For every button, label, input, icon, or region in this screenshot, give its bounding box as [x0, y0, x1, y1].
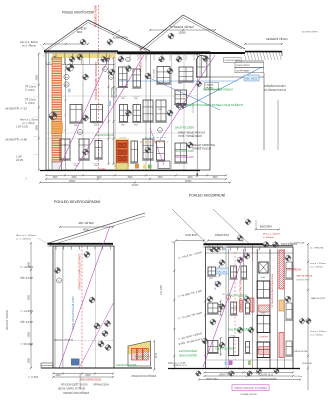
svg-text:KLASIK BLOKY: KLASIK BLOKY: [185, 234, 198, 237]
svg-text:▽ +3,150: ▽ +3,150: [20, 310, 34, 313]
svg-text:900: 900: [134, 125, 138, 127]
svg-text:ÚHELNÍK: ÚHELNÍK: [302, 362, 313, 365]
svg-text:OK +8,5: OK +8,5: [217, 271, 228, 273]
svg-text:▽ ±0,000: ▽ ±0,000: [20, 343, 34, 346]
svg-text:∆42900TŘ +7,23: ∆42900TŘ +7,23: [5, 107, 28, 110]
svg-text:ČSADA: ČSADA: [205, 84, 214, 87]
svg-text:tl. 450mm: tl. 450mm: [263, 236, 274, 239]
svg-text:ÚROVEŇ TERÉNU: ÚROVEŇ TERÉNU: [260, 378, 277, 381]
svg-text:vn. STŘECHA: vn. STŘECHA: [290, 242, 305, 245]
svg-text:3500: 3500: [127, 177, 133, 179]
svg-text:SEVERNÍ VĚTEV: SEVERNÍ VĚTEV: [266, 36, 288, 41]
svg-text:12650: 12650: [185, 180, 192, 183]
svg-text:▽ -0,350: ▽ -0,350: [28, 376, 39, 379]
svg-text:1,NP: 1,NP: [16, 157, 23, 159]
svg-text:SLOVNÍK VĚTEV: SLOVNÍK VĚTEV: [302, 31, 318, 34]
svg-text:ÚPRAV VANGINL SYSTÉMŮ: ÚPRAV VANGINL SYSTÉMŮ: [234, 387, 267, 390]
svg-text:vn 1, 45mm: vn 1, 45mm: [22, 46, 36, 48]
svg-text:POHLED JIHOVÝCHODNÍ: POHLED JIHOVÝCHODNÍ: [62, 11, 94, 15]
svg-text:vn 1. 450mm: vn 1. 450mm: [310, 334, 323, 336]
svg-text:Mezi vz 1. 500mm: Mezi vz 1. 500mm: [16, 235, 36, 237]
svg-text:ODVĚTRÁNÍ 125/110 DN: ODVĚTRÁNÍ 125/110 DN: [95, 134, 114, 137]
svg-text:900: 900: [158, 109, 162, 111]
svg-text:DOPLNIT KRYT: DOPLNIT KRYT: [296, 279, 311, 281]
svg-text:TŘ 2.NP: TŘ 2.NP: [20, 277, 34, 280]
svg-text:1,NP 23,05: 1,NP 23,05: [16, 127, 29, 129]
svg-text:3500: 3500: [212, 177, 218, 179]
svg-text:OPRAVA ZDIVA: OPRAVA ZDIVA: [93, 384, 109, 387]
svg-text:900: 900: [94, 125, 98, 127]
svg-text:STŘEDNÍ VĚTEV: STŘEDNÍ VĚTEV: [170, 24, 194, 29]
svg-text:8600: 8600: [83, 229, 89, 232]
svg-text:Ato vn 1, 50mm: Ato vn 1, 50mm: [20, 41, 38, 44]
svg-text:JZD VĚTEV: JZD VĚTEV: [74, 28, 87, 31]
svg-text:OPRAVA ZDIVA PŘÍZEMÍ: OPRAVA ZDIVA PŘÍZEMÍ: [131, 375, 156, 378]
svg-text:3500: 3500: [52, 177, 58, 179]
svg-text:2850: 2850: [28, 331, 31, 337]
svg-text:ODVĚTRANÉ: ODVĚTRANÉ: [236, 70, 250, 73]
svg-text:PŮVODNÍ DEŠŤ. SVODY: PŮVODNÍ DEŠŤ. SVODY: [61, 384, 88, 387]
svg-text:3500: 3500: [157, 177, 163, 179]
svg-text:2850: 2850: [35, 124, 38, 130]
svg-text:23150: 23150: [132, 184, 139, 187]
svg-text:OK +4,25: OK +4,25: [215, 280, 217, 290]
svg-text:900: 900: [94, 165, 98, 167]
svg-text:1600: 1600: [261, 277, 266, 279]
svg-text:1600: 1600: [261, 312, 266, 314]
svg-text:6000: 6000: [85, 375, 91, 377]
svg-text:4150: 4150: [156, 352, 158, 358]
svg-text:ODPAD DN125: ODPAD DN125: [86, 379, 102, 382]
svg-text:ODPADNÍ ZDIVA PŘÍZEMÍ: ODPADNÍ ZDIVA PŘÍZEMÍ: [63, 392, 89, 395]
svg-text:HRANICE VĚTRÁNÍ: HRANICE VĚTRÁNÍ: [54, 339, 73, 342]
svg-text:mezi p 1. 450mm: mezi p 1. 450mm: [310, 263, 326, 265]
svg-text:NOVÉ OPLECHOVÁNÍ ATIKY: NOVÉ OPLECHOVÁNÍ ATIKY: [72, 296, 75, 330]
svg-text:8600: 8600: [77, 32, 83, 34]
svg-text:POHLED JIHOZÁPADNÍ: POHLED JIHOZÁPADNÍ: [189, 194, 225, 198]
svg-text:STŘEŠNÍ KRAJINY: STŘEŠNÍ KRAJINY: [264, 85, 286, 88]
svg-text:DALŠÍ POLOŽENÍ: DALŠÍ POLOŽENÍ: [175, 127, 194, 130]
svg-text:▽: ▽: [25, 178, 27, 181]
svg-text:2850: 2850: [35, 74, 38, 80]
svg-text:OPRAVA NÁTĚRŮ KLEMP.: OPRAVA NÁTĚRŮ KLEMP.: [175, 156, 194, 159]
svg-text:DALŠÍ POLOŽENÍ: DALŠÍ POLOŽENÍ: [179, 350, 197, 353]
svg-text:TŘ 23mm: TŘ 23mm: [25, 86, 36, 89]
svg-text:23,05: 23,05: [16, 160, 24, 162]
svg-text:▽: ▽: [43, 55, 45, 58]
svg-text:2850: 2850: [28, 357, 31, 363]
svg-text:OTVĚTR: OTVĚTR: [259, 336, 268, 339]
svg-text:900: 900: [121, 98, 125, 100]
svg-text:SÁNÍ 7,95m: SÁNÍ 7,95m: [219, 374, 232, 377]
svg-text:Č. 23mm: Č. 23mm: [25, 89, 35, 92]
svg-text:900: 900: [178, 83, 182, 85]
svg-text:900: 900: [134, 98, 138, 100]
svg-text:POKNÍ VĚTEV: POKNÍ VĚTEV: [236, 64, 251, 67]
svg-text:POHLED SEVEROZÁPADNÍ: POHLED SEVEROZÁPADNÍ: [54, 200, 100, 204]
svg-text:VÝTAHOVÁ ŠACHTA NOVÁ: VÝTAHOVÁ ŠACHTA NOVÁ: [271, 273, 274, 308]
svg-text:Č. 23mm: Č. 23mm: [25, 102, 35, 105]
svg-text:DALŠÍ POLOŽENÍ: DALŠÍ POLOŽENÍ: [228, 329, 252, 332]
svg-text:vz 1. 450mm: vz 1. 450mm: [16, 238, 31, 240]
svg-text:DALŠÍ POLOŽENÍ PANELŮ DLE STŘE: DALŠÍ POLOŽENÍ PANELŮ DLE STŘECH: [187, 104, 243, 107]
svg-text:26,35m: 26,35m: [294, 376, 302, 378]
svg-text:2850: 2850: [28, 294, 31, 300]
svg-text:▽ +9,470 +2NP: ▽ +9,470 +2NP: [178, 251, 204, 260]
svg-text:DETAIL ODPAD. POTRUBÍ: DETAIL ODPAD. POTRUBÍ: [58, 387, 85, 390]
svg-text:2600: 2600: [55, 375, 61, 377]
svg-text:TŘNÍ 7,95m: TŘNÍ 7,95m: [206, 378, 218, 381]
svg-text:vn 1. 450mm: vn 1. 450mm: [310, 266, 323, 268]
svg-text:vn 1, 45mm: vn 1, 45mm: [22, 123, 35, 125]
svg-text:ÚROVEŇ TERÉNU: ÚROVEŇ TERÉNU: [6, 310, 9, 330]
svg-text:vn 1500: vn 1500: [154, 68, 156, 78]
svg-text:900: 900: [121, 125, 125, 127]
svg-text:DALŠÍ POLOŽENÍ: DALŠÍ POLOŽENÍ: [229, 295, 247, 298]
svg-text:3500: 3500: [187, 177, 193, 179]
svg-text:±14,600: ±14,600: [161, 284, 163, 295]
svg-text:VNITŘ. 7 ŠPINĚŽ PLECH: VNITŘ. 7 ŠPINĚŽ PLECH: [178, 135, 202, 138]
svg-text:▽ +6,350 TŘ 1.NP: ▽ +6,350 TŘ 1.NP: [178, 289, 203, 298]
svg-text:OK +8,5: OK +8,5: [245, 78, 258, 80]
svg-text:3500: 3500: [71, 177, 77, 179]
svg-text:NAEL W ONTZ: NAEL W ONTZ: [311, 297, 326, 300]
svg-text:DALŠÍ POLOŽENÍ: DALŠÍ POLOŽENÍ: [216, 348, 234, 351]
svg-text:▽: ▽: [171, 241, 173, 244]
svg-text:OPRAVA OMÍTEK: OPRAVA OMÍTEK: [240, 393, 258, 396]
svg-text:STÁVAJÍCÍ KOMÍN ODSTRANIT: STÁVAJÍCÍ KOMÍN ODSTRANIT: [94, 62, 98, 100]
svg-text:1500: 1500: [209, 277, 214, 279]
svg-text:SNĚHOVÁ TAŠ.: SNĚHOVÁ TAŠ.: [294, 350, 308, 353]
svg-text:3500: 3500: [96, 177, 102, 179]
svg-text:▽ +3,150 TŘ 2NP: ▽ +3,150 TŘ 2NP: [178, 311, 203, 320]
svg-text:SOKL vn. (-),135: SOKL vn. (-),135: [168, 363, 186, 365]
svg-text:15000: 15000: [178, 31, 186, 35]
svg-text:ŠPINĚŽ PLECH: ŠPINĚŽ PLECH: [192, 148, 211, 151]
svg-text:BAČKŮRA: BAČKŮRA: [260, 225, 272, 228]
svg-text:OK +1,2: OK +1,2: [222, 294, 231, 296]
svg-text:Mezi vn 1, 50mm: Mezi vn 1, 50mm: [20, 120, 38, 122]
svg-text:LIŠKA STŘECHA: LIŠKA STŘECHA: [286, 269, 301, 272]
svg-text:TŘ 23mm: TŘ 23mm: [25, 99, 36, 102]
svg-text:Mezi p 1. 500mm: Mezi p 1. 500mm: [263, 234, 280, 236]
svg-text:POKNÍ VĚTEV ODVĚTR.: POKNÍ VĚTEV ODVĚTR.: [225, 59, 241, 62]
svg-text:KLASIK BUDOV: KLASIK BUDOV: [113, 36, 128, 39]
svg-text:OBNOVA TRVSLA: OBNOVA TRVSLA: [296, 275, 312, 278]
svg-text:▽ +6,350: ▽ +6,350: [20, 266, 34, 269]
svg-text:SANACE POLYKARB.: SANACE POLYKARB.: [116, 364, 137, 367]
svg-text:JZD VĚTEV: JZD VĚTEV: [78, 222, 94, 225]
svg-text:∆42900TŘ +4,88: ∆42900TŘ +4,88: [5, 138, 28, 141]
svg-text:ÚČELNÍK 26,35: ÚČELNÍK 26,35: [258, 374, 274, 377]
svg-text:STŘEDNÍ VĚTEV: STŘEDNÍ VĚTEV: [215, 234, 229, 237]
svg-text:STÁVAJÍCÍ KOMÍN ODSTRANIT: STÁVAJÍCÍ KOMÍN ODSTRANIT: [79, 253, 82, 290]
svg-text:DALŠÍ POLOŽENÍ PANELŮ: DALŠÍ POLOŽENÍ PANELŮ: [203, 89, 233, 92]
svg-text:vn. STŘECHA: vn. STŘECHA: [310, 247, 323, 250]
svg-text:mezi p 1. 500mm: mezi p 1. 500mm: [310, 331, 326, 333]
svg-text:10500: 10500: [69, 180, 76, 183]
svg-text:TŘ 1.NP: TŘ 1.NP: [20, 321, 34, 324]
svg-text:OSAZENÍ POLY: OSAZENÍ POLY: [135, 355, 150, 358]
svg-text:DO ŘÁDNA POKOJŮ: DO ŘÁDNA POKOJŮ: [264, 89, 286, 92]
svg-text:OBNOVA NÁTĚRŮ: OBNOVA NÁTĚRŮ: [179, 355, 197, 358]
